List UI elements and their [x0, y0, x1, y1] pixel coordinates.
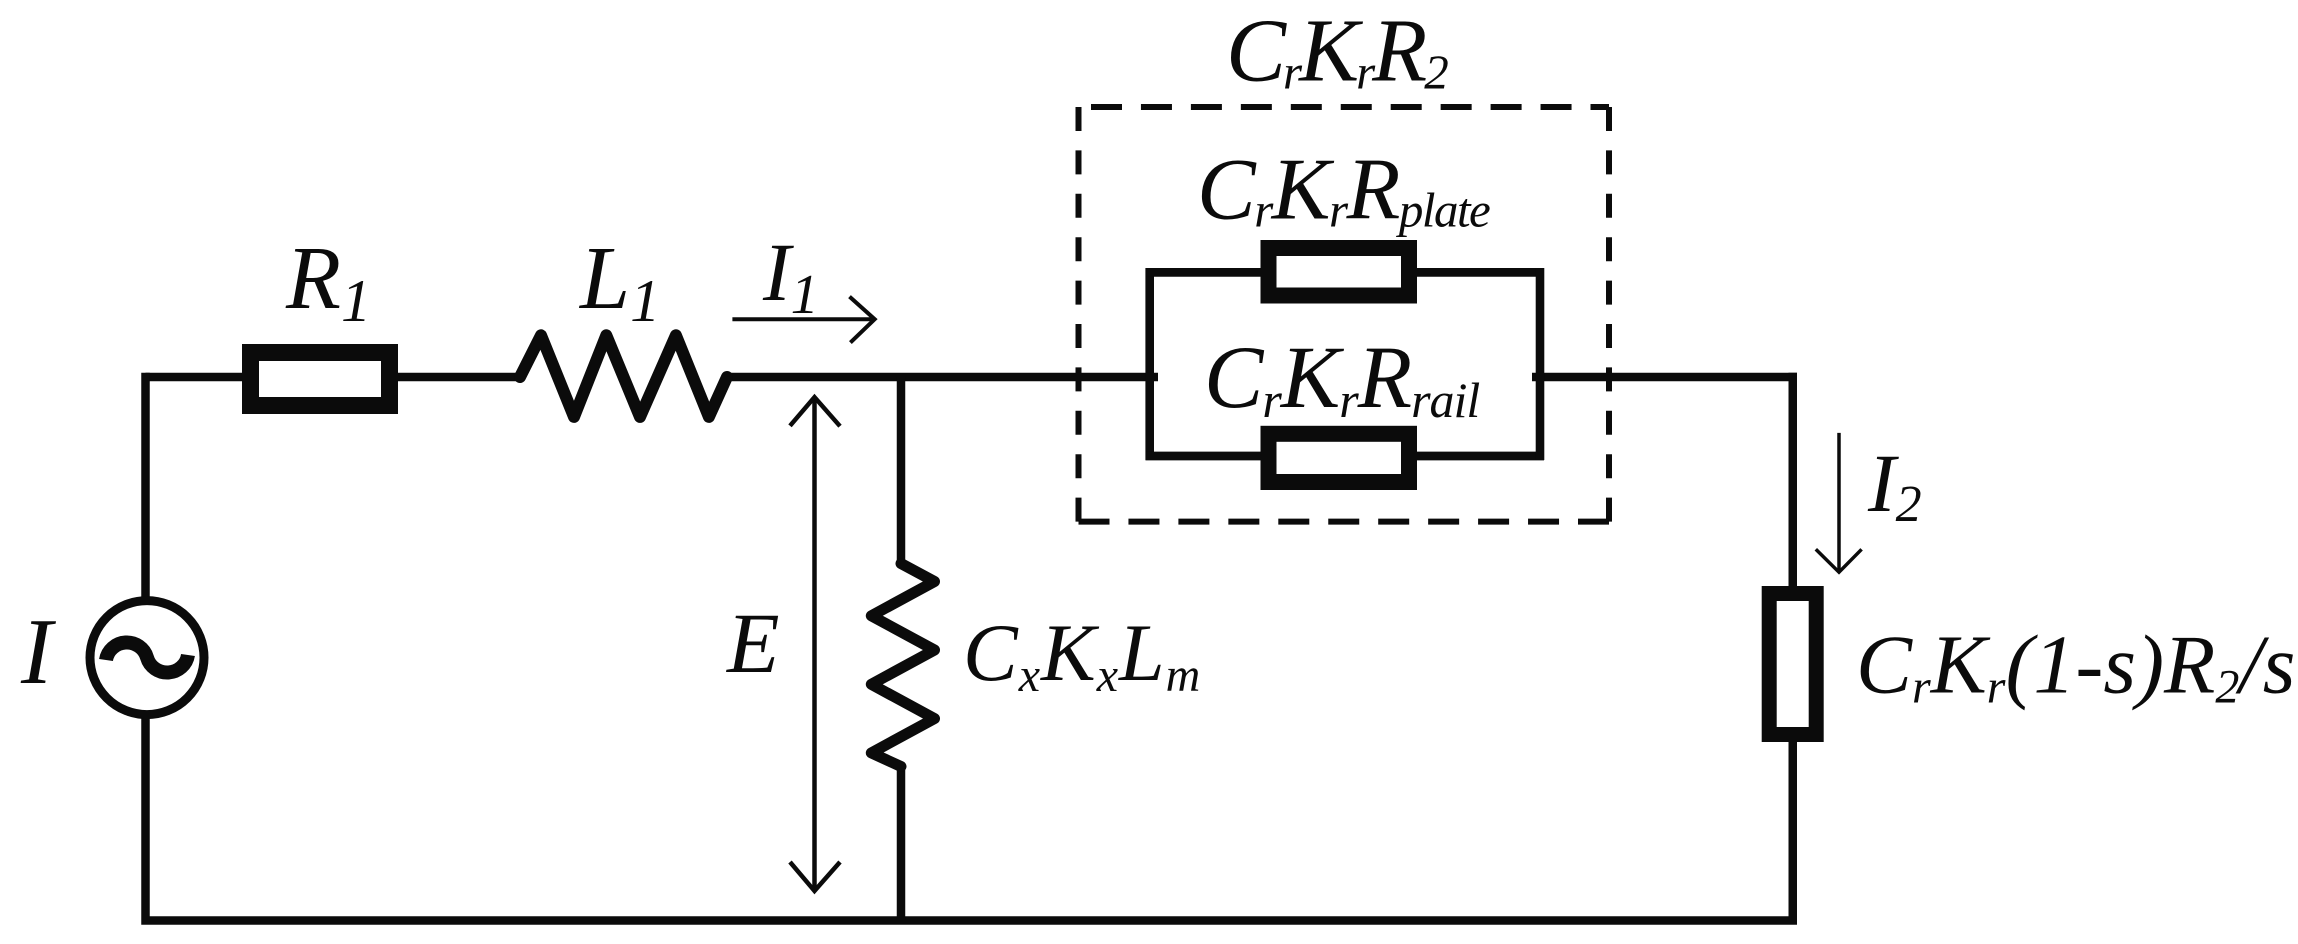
node: parallel block left bar: [1145, 268, 1154, 460]
svg-text:CrKrR2: CrKrR2: [1226, 2, 1448, 101]
wire: right vertical lower + bottom horizontal + left vertical lower: [146, 715, 1793, 921]
wire: top horizontal middle (L1 to parallel block left bar): [727, 373, 1158, 382]
inductor CxKxLm vertical zigzag: [871, 564, 934, 767]
wire: parallel block bottom branch: [1146, 452, 1545, 461]
node: parallel block right bar: [1536, 268, 1545, 460]
wire: top horizontal right (right bar to right branch corner): [1532, 373, 1797, 382]
arrow E double-headed: [790, 397, 840, 891]
resistor CrKrRplate: [1269, 248, 1410, 296]
wire: middle vertical lower (zigzag to bottom wire): [897, 763, 906, 921]
arrow I2: [1816, 433, 1862, 572]
wire: middle vertical upper (junction down to magnetizing zigzag): [897, 377, 906, 565]
svg-text:E: E: [725, 595, 780, 691]
wire: top horizontal left segment (source to L1): [146, 373, 521, 382]
resistor CrKr(1-s)R2/s vertical box: [1769, 594, 1816, 735]
current source sine symbol: [106, 643, 188, 673]
resistor CrKrRrail: [1269, 434, 1410, 482]
dashed box CrKrR2: [1079, 107, 1610, 522]
arrow I1: [732, 297, 874, 343]
wire: parallel block top branch: [1146, 268, 1545, 277]
resistor R1: [251, 353, 390, 406]
svg-text:I: I: [20, 600, 56, 704]
wire: left vertical upper (top wire down to source circle): [141, 373, 150, 600]
inductor L1 zigzag: [520, 335, 727, 417]
current source circle: [90, 601, 204, 715]
wire: right vertical upper (corner down to rotor resistor): [1789, 373, 1798, 593]
svg-text:CxKxLm: CxKxLm: [963, 607, 1201, 702]
